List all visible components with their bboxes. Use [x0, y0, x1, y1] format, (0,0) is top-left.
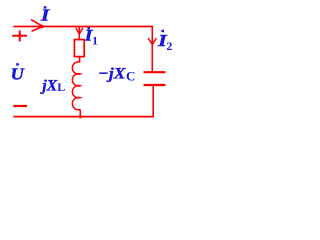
label I2: [157, 30, 172, 53]
svg-text:jX: jX: [39, 77, 57, 94]
inductor jXL coil: [72, 62, 80, 110]
terminal -: [13, 105, 27, 107]
current arrow I2: [148, 38, 156, 44]
label I1: [83, 27, 98, 47]
svg-text:1: 1: [92, 34, 98, 48]
wire right branch vertical bottom: [152, 85, 154, 117]
svg-text:C: C: [126, 68, 135, 83]
wire bottom horizontal: [13, 116, 153, 118]
wire top horizontal: [13, 26, 152, 28]
svg-text:L: L: [57, 80, 65, 94]
label U (source voltage): [11, 63, 25, 83]
inductor jXL box element: [74, 40, 84, 57]
value label -jXC: [98, 66, 135, 84]
svg-text:U: U: [11, 64, 25, 83]
wire right branch vertical top: [151, 26, 153, 72]
wire coil to bottom: [79, 110, 81, 117]
wire between box and coil: [79, 57, 81, 62]
current arrow I on top wire: [31, 20, 43, 32]
svg-text:2: 2: [166, 39, 172, 53]
label I (current I): [40, 5, 51, 24]
capacitor C bottom plate: [144, 84, 166, 86]
capacitor C top plate: [144, 71, 166, 73]
current arrow I1: [76, 28, 83, 34]
value label jXL: [39, 77, 65, 94]
junction node bottom of branch L: [79, 115, 82, 118]
svg-text:−jX: −jX: [98, 66, 126, 83]
wire middle branch top stub: [78, 27, 80, 40]
terminal +: [12, 30, 27, 41]
